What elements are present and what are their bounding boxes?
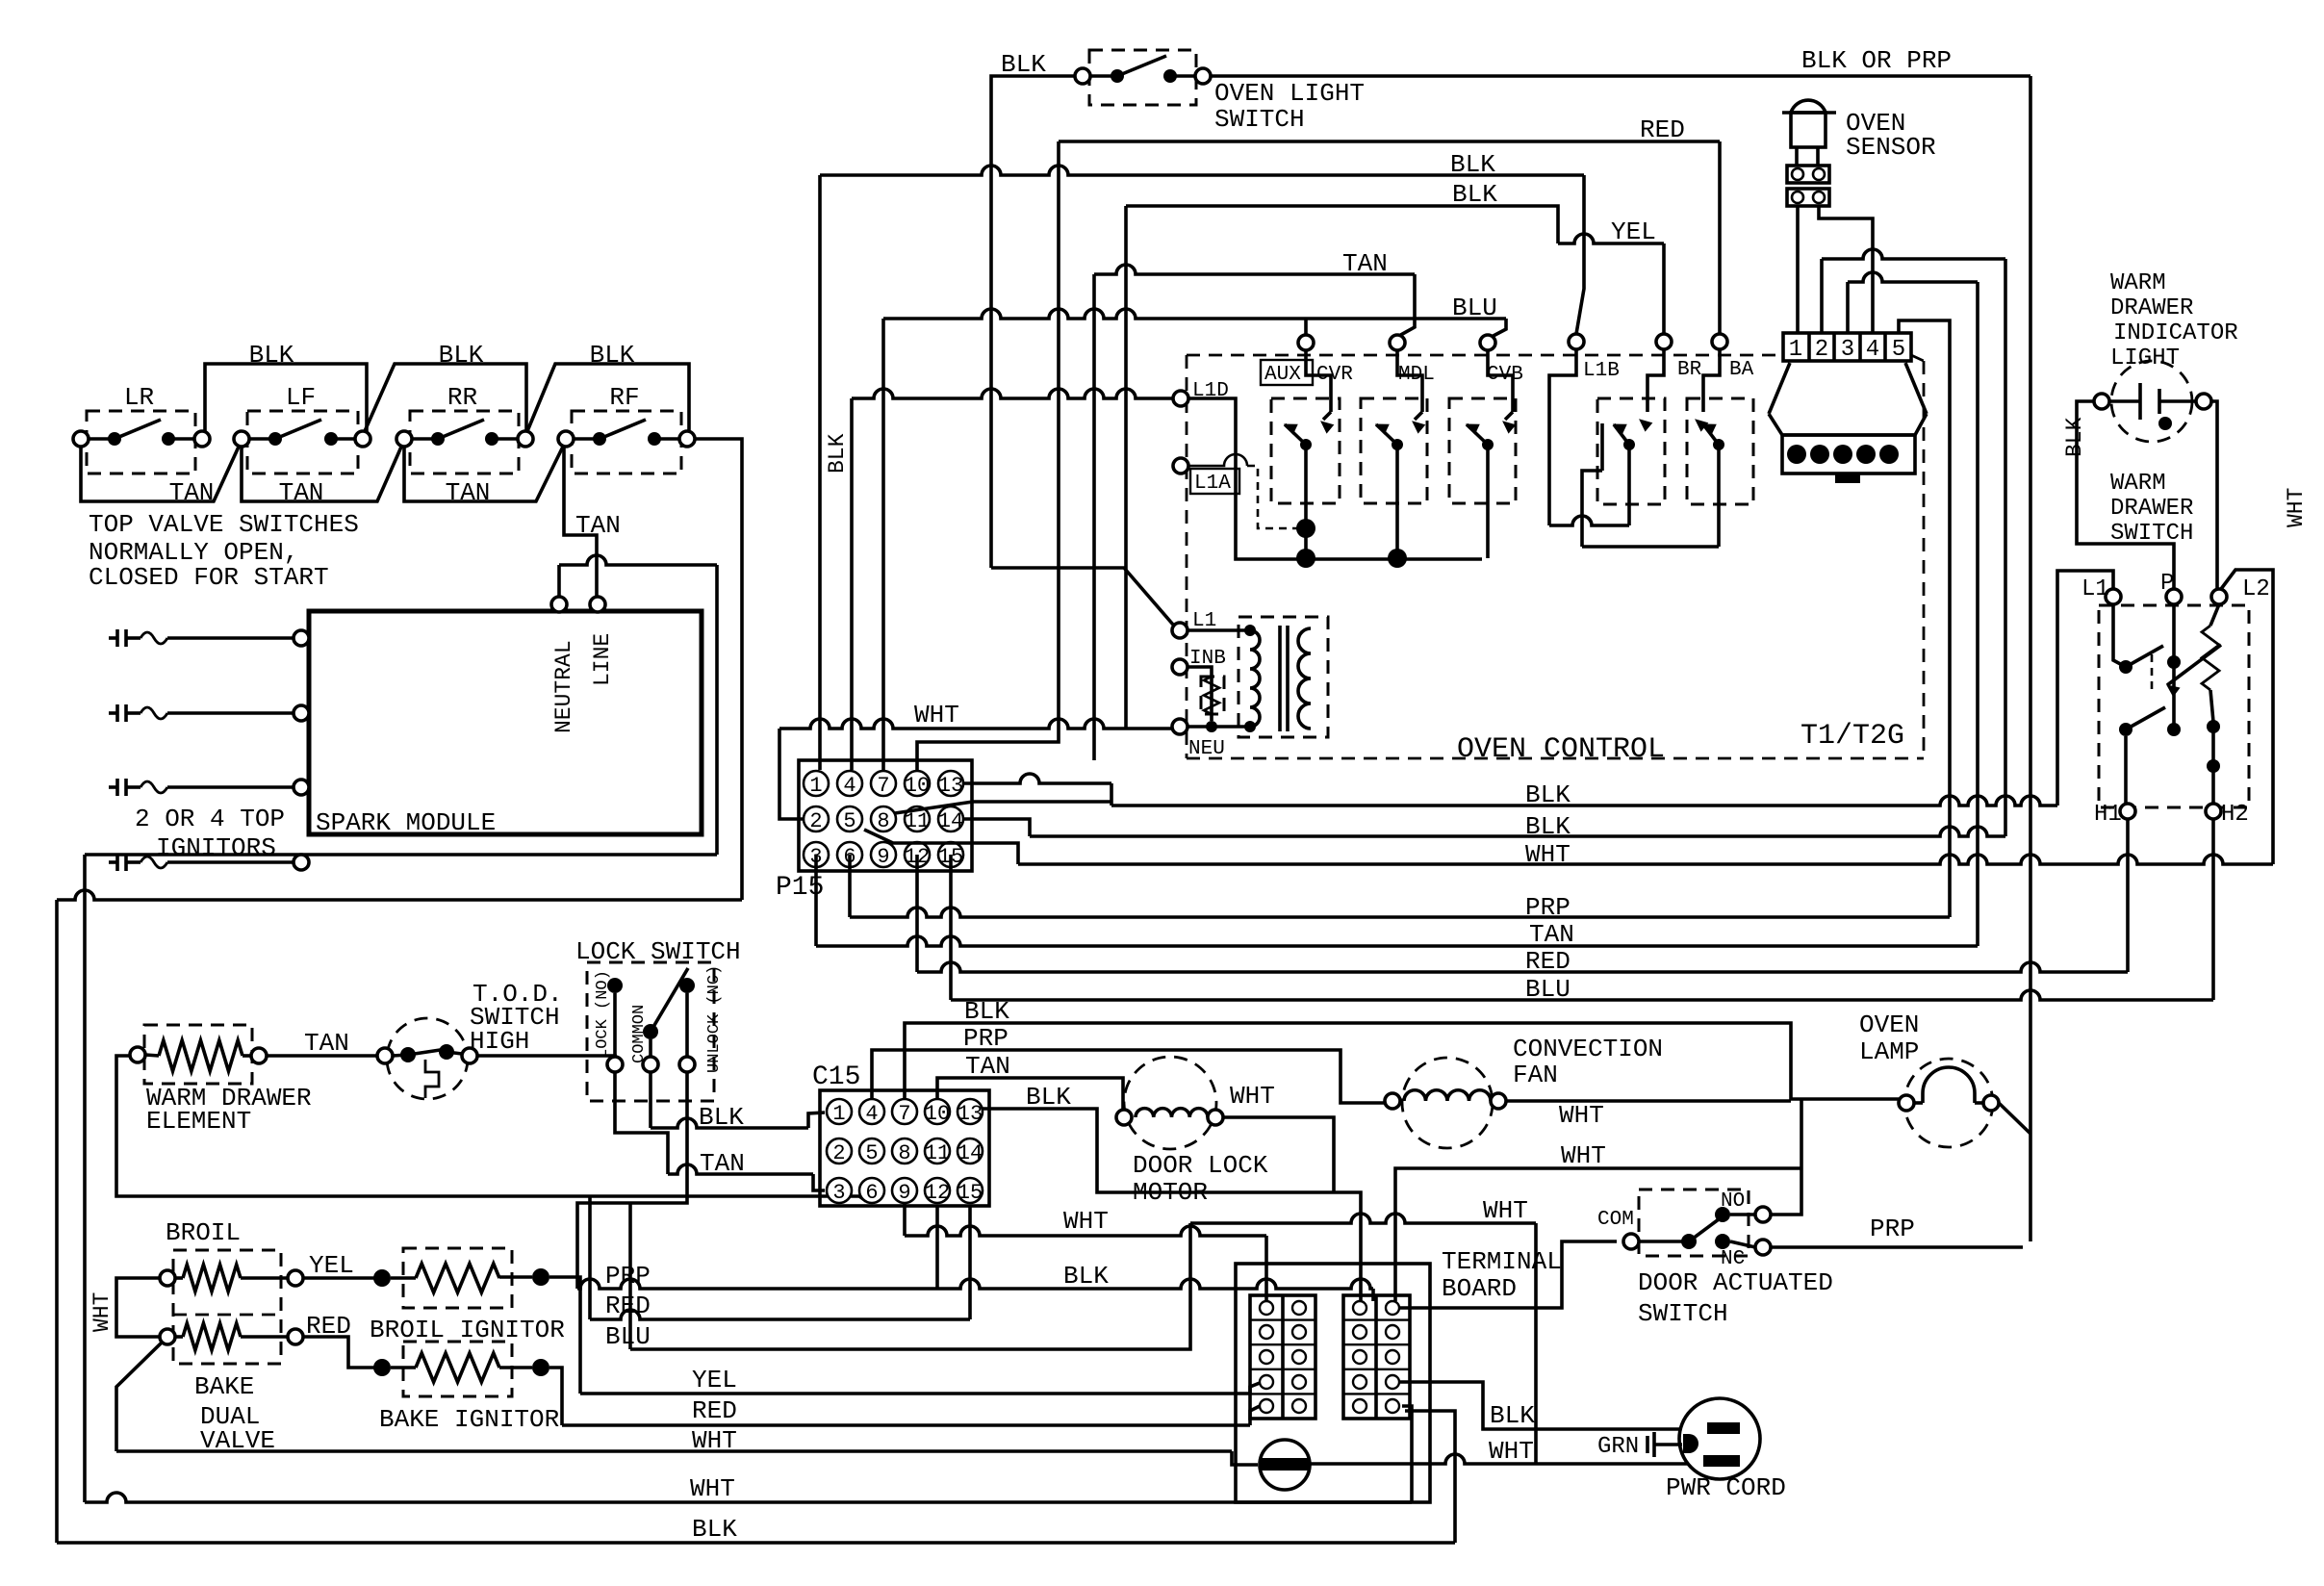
relay box CVB	[1449, 398, 1516, 503]
svg-text:PRP: PRP	[1525, 893, 1571, 922]
convection fan dashed circle	[1402, 1058, 1493, 1148]
oven control dashed box top	[1187, 354, 1783, 357]
svg-text:WHT: WHT	[914, 701, 959, 729]
wire v1100 to P15-10	[917, 141, 1059, 770]
P15 pin 2	[804, 806, 829, 831]
svg-text:WHT: WHT	[1525, 840, 1571, 869]
wire INB jog	[1188, 667, 1212, 721]
wire RED top bus	[1059, 140, 1720, 143]
wire BLU bottom	[630, 1223, 1190, 1349]
L1A terminal	[1173, 458, 1188, 473]
svg-text:OVEN: OVEN	[1859, 1010, 1919, 1039]
H1 H2 terminals	[2120, 804, 2135, 819]
wire lamp right diag	[1999, 1103, 2030, 1134]
svg-text:5: 5	[1892, 337, 1905, 363]
wire v1170	[1124, 206, 1128, 729]
wire C15-4 riser PRP	[872, 1050, 1385, 1103]
warm drawer element dashed box	[144, 1025, 252, 1084]
wire BLK bus1 long	[1111, 796, 2057, 806]
svg-text:RED: RED	[692, 1396, 737, 1425]
wire to L1 diagonal	[991, 568, 1173, 625]
svg-text:RF: RF	[609, 383, 639, 412]
svg-text:H1: H1	[2094, 802, 2122, 828]
svg-text:AUX: AUX	[1264, 364, 1301, 386]
wire TAN link 1	[81, 445, 240, 501]
TB right block circles row2	[1353, 1325, 1366, 1339]
C15 pin 14	[958, 1138, 983, 1164]
wire WHT bus3 long	[1018, 855, 2273, 864]
wire P15-8 diag	[895, 802, 1111, 813]
wire C15-7 riser BLK	[905, 1023, 1899, 1099]
pwr cord circle	[1679, 1398, 1760, 1479]
svg-text:MOTOR: MOTOR	[1133, 1178, 1208, 1207]
svg-text:FAN: FAN	[1513, 1061, 1558, 1089]
junction dot AUX upper	[1296, 519, 1315, 538]
wire indicator left down	[2077, 401, 2174, 589]
svg-text:TAN: TAN	[700, 1149, 745, 1178]
wire BLK bus1 top	[820, 166, 1584, 175]
svg-text:WHT: WHT	[1489, 1437, 1534, 1466]
label AUX boxed	[1261, 360, 1313, 385]
wire WHT line 1214	[1395, 1168, 1801, 1301]
svg-text:TAN: TAN	[1529, 920, 1574, 949]
wire sensor to pin1	[1796, 206, 1800, 333]
top valve switch LF dashed box	[247, 411, 358, 473]
wire RED bottom	[588, 1196, 592, 1319]
svg-text:TAN: TAN	[575, 511, 621, 540]
wire PRP bottom ext	[937, 1279, 1373, 1289]
svg-text:1: 1	[1789, 337, 1802, 363]
C15 pin 3	[827, 1178, 852, 1203]
wire indicator right down	[2211, 401, 2217, 589]
svg-text:BLU: BLU	[1452, 294, 1497, 322]
TB right block circles row5	[1353, 1399, 1366, 1413]
wire NC PRP to lamp	[1771, 1245, 2023, 1249]
wire motor right down	[1223, 1117, 1334, 1192]
C15 pin 11	[925, 1138, 950, 1164]
wire COMMON to BLK	[649, 1072, 652, 1128]
svg-text:L2: L2	[2242, 576, 2270, 602]
wire WHT valve loop	[116, 1278, 160, 1337]
terminal board right block	[1343, 1295, 1410, 1419]
svg-text:PRP: PRP	[963, 1024, 1009, 1053]
C15 pin 12	[925, 1178, 950, 1203]
wire v918 P15-7 feed	[881, 319, 885, 770]
bake ignitor dashed box	[403, 1342, 512, 1396]
relay CVB contact	[1488, 350, 1513, 412]
convection fan coil	[1385, 1093, 1400, 1109]
lock switch dashed box	[587, 962, 714, 1101]
lock switch contacts	[607, 978, 623, 993]
svg-text:RED: RED	[1525, 947, 1571, 976]
wire LOCK chain to TAN line	[615, 1072, 668, 1174]
oven control dashed left edge	[1186, 355, 1188, 758]
wire bake ignitor out RED	[549, 1368, 562, 1425]
P15 pin 4	[837, 771, 862, 796]
wire C15-13 BLK to TB	[983, 1109, 1361, 1301]
L1 terminal	[1172, 623, 1188, 638]
svg-text:LF: LF	[286, 383, 316, 412]
wire BLU left riser	[628, 1203, 632, 1349]
relay top circles	[1298, 335, 1314, 350]
wire bake diagonal down	[116, 1343, 162, 1451]
svg-text:HIGH: HIGH	[470, 1027, 529, 1056]
svg-text:P: P	[2160, 571, 2174, 597]
svg-text:4: 4	[865, 1102, 878, 1126]
wire NO up to lamp feed	[1771, 1099, 1801, 1215]
transformer primary coil	[1250, 630, 1260, 727]
svg-text:NO: NO	[1721, 1190, 1745, 1213]
svg-text:BLK: BLK	[1452, 180, 1497, 209]
wire WHT bottom rail to TB	[1402, 1406, 1412, 1502]
C15 pin 13	[958, 1099, 983, 1124]
svg-text:SENSOR: SENSOR	[1846, 133, 1936, 162]
warm drawer switch dashed box	[2099, 605, 2249, 807]
resistor dashed box small	[1201, 677, 1224, 714]
terminal board left block	[1250, 1295, 1315, 1419]
svg-text:YEL: YEL	[1611, 217, 1656, 246]
warm drawer element resistor	[130, 1047, 145, 1062]
svg-text:L1B: L1B	[1583, 360, 1620, 382]
pwr cord prongs	[1707, 1422, 1740, 1434]
svg-text:WHT: WHT	[89, 1292, 115, 1332]
svg-text:WHT: WHT	[692, 1426, 737, 1455]
bake valve resistor	[160, 1329, 175, 1344]
oven control dashed right part	[1923, 361, 1926, 758]
door actuated switch dashed box	[1639, 1189, 1749, 1256]
P15 pin 10	[905, 771, 930, 796]
svg-text:2: 2	[832, 1141, 845, 1165]
terminal strip 1-5 box	[1783, 333, 1911, 361]
wire NEUTRAL return long	[85, 853, 717, 857]
broil valve resistor	[160, 1270, 175, 1286]
svg-text:BLK: BLK	[439, 341, 484, 370]
broil ignitor resistor	[373, 1269, 391, 1287]
C15 pin 6	[859, 1178, 884, 1203]
wire PRP bottom	[577, 1279, 937, 1289]
svg-text:LR: LR	[124, 383, 154, 412]
svg-text:YEL: YEL	[309, 1251, 354, 1280]
svg-text:BAKE: BAKE	[194, 1372, 254, 1401]
svg-text:SPARK MODULE: SPARK MODULE	[316, 808, 496, 837]
svg-text:9: 9	[877, 845, 889, 869]
svg-text:L1: L1	[2081, 576, 2109, 602]
wire outer rail	[57, 890, 742, 900]
L1 P L2 terminals	[2106, 589, 2121, 604]
svg-text:BLK: BLK	[1490, 1401, 1535, 1430]
wire UNLOCK down to PRP	[577, 1072, 687, 1289]
P15 pin 15	[938, 842, 963, 867]
svg-text:IGNITORS: IGNITORS	[156, 833, 276, 862]
svg-text:PWR CORD: PWR CORD	[1666, 1473, 1786, 1502]
svg-text:BLK: BLK	[1525, 780, 1571, 809]
svg-text:BLK: BLK	[1026, 1083, 1071, 1112]
C15 box	[820, 1090, 989, 1206]
C15 pin 1	[827, 1099, 852, 1124]
svg-text:2: 2	[809, 809, 822, 833]
wire TB to BLK plug	[1399, 1382, 1705, 1429]
svg-text:TAN: TAN	[279, 478, 324, 507]
svg-text:8: 8	[898, 1141, 910, 1165]
wire TOD to LOCK terminal	[477, 1056, 615, 1057]
svg-text:BLU: BLU	[1525, 975, 1571, 1004]
wire TAN link 2	[242, 445, 402, 501]
wire long vertical to oven lamp	[2029, 76, 2032, 1241]
svg-text:OVEN LIGHT: OVEN LIGHT	[1214, 79, 1365, 108]
svg-text:2: 2	[1815, 337, 1828, 363]
svg-text:1: 1	[832, 1102, 845, 1126]
svg-text:WHT: WHT	[2284, 488, 2309, 527]
wire WHT bottom rail	[85, 1493, 1412, 1502]
wire L1D down bus	[1188, 398, 1482, 559]
svg-text:PRP: PRP	[605, 1262, 651, 1291]
svg-text:TAN: TAN	[169, 478, 215, 507]
relay BA contact	[1703, 349, 1720, 412]
svg-text:10: 10	[925, 1102, 950, 1126]
svg-text:LAMP: LAMP	[1859, 1037, 1919, 1066]
wire YEL to BR	[1558, 234, 1664, 243]
C15 pin 2	[827, 1138, 852, 1164]
wire pin2 riser	[1820, 259, 1824, 333]
wire BLU bus top	[883, 309, 1506, 319]
junction dot AUX lower	[1296, 549, 1315, 568]
bake ignitor resistor	[373, 1359, 391, 1376]
svg-text:BLK: BLK	[692, 1515, 737, 1544]
wire YEL to broil ignitor	[303, 1276, 374, 1280]
wire RED drop to BA	[1718, 141, 1722, 334]
oven light switch dashed box	[1089, 50, 1196, 105]
NEU terminal	[1172, 719, 1188, 734]
warm drawer indicator dashed circle	[2111, 361, 2192, 442]
svg-text:LOCK (NO): LOCK (NO)	[594, 970, 612, 1059]
C15 pin 10	[925, 1099, 950, 1124]
fuse symbol	[1260, 1440, 1310, 1490]
wire H1 down to RED	[2126, 819, 2130, 972]
wire BLK into oven light switch	[991, 76, 1075, 568]
wire NEU to transformer	[1188, 725, 1250, 729]
BR fixed bracket	[1600, 423, 1604, 471]
wire C15-10 riser TAN	[937, 1078, 1123, 1110]
wire RED bus	[915, 855, 919, 972]
TB left block circles row4	[1260, 1375, 1273, 1389]
wire BLK bus2 top	[1126, 206, 1558, 243]
svg-text:BROIL: BROIL	[166, 1218, 241, 1247]
C15 pin 9	[892, 1178, 917, 1203]
door lock motor dashed circle	[1124, 1057, 1216, 1149]
oven lamp symbol	[1899, 1095, 1914, 1111]
svg-text:1: 1	[809, 774, 822, 798]
svg-text:14: 14	[958, 1141, 983, 1165]
relay box MDL	[1361, 398, 1427, 503]
wire L1B to BR arm	[1549, 349, 1576, 525]
wire WHT line 1271	[1190, 1214, 1536, 1223]
svg-text:LINE: LINE	[590, 633, 615, 686]
svg-text:NEU: NEU	[1188, 738, 1225, 760]
svg-text:BLK OR PRP: BLK OR PRP	[1801, 46, 1952, 75]
svg-text:13: 13	[958, 1102, 983, 1126]
svg-text:11: 11	[925, 1141, 950, 1165]
C15 pin 5	[859, 1138, 884, 1164]
wire BLK1 drop to L1B	[1576, 175, 1584, 334]
wire H2 down to BLU	[2211, 819, 2215, 1000]
svg-text:TERMINAL: TERMINAL	[1442, 1247, 1562, 1276]
wire v885 P15-4 feed	[850, 398, 854, 770]
P15 box	[799, 760, 972, 871]
wire RED to bake ignitor	[303, 1337, 374, 1368]
wire P15-14 to BLK bus2	[963, 819, 1030, 836]
P15 pin 7	[871, 771, 896, 796]
TB left block circles row1	[1260, 1301, 1273, 1315]
ignitor symbol 2	[109, 711, 117, 715]
svg-text:COMMON: COMMON	[630, 1005, 649, 1063]
svg-text:BROIL IGNITOR: BROIL IGNITOR	[370, 1316, 565, 1344]
svg-text:8: 8	[877, 809, 889, 833]
svg-text:WARM: WARM	[2110, 471, 2166, 497]
wire TAN link 3	[404, 445, 564, 501]
svg-text:BAKE IGNITOR: BAKE IGNITOR	[379, 1405, 559, 1434]
svg-text:YEL: YEL	[692, 1366, 737, 1394]
relay box BA	[1687, 398, 1753, 504]
wire BLU bus	[949, 855, 953, 1000]
broil bake dual valve dashed box	[173, 1250, 281, 1364]
wire WHT bottom from valve	[116, 1449, 1232, 1453]
relay BR contact	[1647, 349, 1664, 412]
svg-text:TAN: TAN	[304, 1029, 349, 1058]
wire v851 P15-1 feed	[818, 175, 822, 770]
P15 pin 6	[837, 842, 862, 867]
svg-text:WHT: WHT	[1230, 1082, 1275, 1111]
oven sensor connector block 1	[1787, 166, 1829, 183]
svg-text:6: 6	[865, 1181, 878, 1205]
svg-text:WARM: WARM	[2110, 270, 2166, 296]
oven sensor bulb	[1791, 100, 1826, 113]
switch LR terminals	[73, 431, 89, 447]
svg-text:BR: BR	[1677, 359, 1702, 381]
svg-text:4: 4	[1866, 337, 1879, 363]
relay box BR	[1597, 398, 1665, 504]
P15 pin 1	[804, 771, 829, 796]
svg-text:RR: RR	[447, 383, 477, 412]
TB left block circles row2	[1260, 1325, 1273, 1339]
top valve switch LR dashed box	[87, 411, 195, 473]
svg-text:BLU: BLU	[605, 1322, 651, 1351]
svg-text:13: 13	[938, 774, 963, 798]
svg-text:INDICATOR: INDICATOR	[2113, 320, 2238, 346]
ignitor symbol 4	[109, 860, 117, 864]
ignitor symbol 1	[109, 636, 117, 640]
wire P15-5 diag to WHT bus3	[864, 830, 1018, 864]
svg-text:DRAWER: DRAWER	[2110, 295, 2193, 321]
transformer core	[1278, 626, 1282, 731]
svg-text:3: 3	[832, 1181, 845, 1205]
svg-text:COM: COM	[1597, 1209, 1634, 1231]
svg-text:BLK: BLK	[2062, 417, 2087, 457]
svg-text:15: 15	[958, 1181, 983, 1205]
wire v1137	[1092, 274, 1096, 760]
oven light switch contacts	[1075, 68, 1090, 84]
C15 pin 4	[859, 1099, 884, 1124]
transformer dashed box	[1239, 617, 1328, 737]
P15 pin 12	[905, 842, 930, 867]
svg-text:5: 5	[843, 809, 856, 833]
C15 pin 7	[892, 1099, 917, 1124]
wire C15-9 WHT low	[903, 1203, 907, 1236]
TB left block circles row5	[1260, 1399, 1273, 1413]
indicator light symbol	[2094, 394, 2109, 409]
ignitor symbol 3	[109, 785, 117, 789]
switch LF terminals	[234, 431, 249, 447]
NEUTRAL LINE terminals	[551, 597, 567, 612]
wire TAN line to C15-3	[668, 1164, 813, 1174]
svg-text:BLK: BLK	[825, 433, 850, 473]
wire BLK bottom rail	[57, 1541, 1455, 1545]
P15 pin 5	[837, 806, 862, 831]
svg-text:SWITCH: SWITCH	[2110, 521, 2193, 547]
P15 pin 8	[871, 806, 896, 831]
svg-text:TAN: TAN	[446, 478, 491, 507]
svg-text:RED: RED	[1640, 115, 1685, 144]
wire warm element left down	[116, 1056, 866, 1201]
wire BLK OR PRP long top	[1211, 74, 2030, 78]
wire broil ignitor out YEL	[549, 1277, 580, 1394]
svg-text:SWITCH: SWITCH	[1214, 105, 1305, 134]
C15 pin 15	[958, 1178, 983, 1203]
TB right block circles row1	[1353, 1301, 1366, 1315]
wire sensor to pin4	[1819, 206, 1873, 333]
svg-text:5: 5	[865, 1141, 878, 1165]
wire RF right to outer rail	[695, 439, 742, 900]
svg-text:14: 14	[938, 809, 963, 833]
plug trapezoid below strip	[1769, 363, 1790, 414]
svg-text:WHT: WHT	[1483, 1196, 1528, 1225]
TB right block circles row4	[1353, 1375, 1366, 1389]
svg-text:TAN: TAN	[1342, 249, 1388, 278]
svg-text:NEUTRAL: NEUTRAL	[551, 640, 576, 733]
door lock motor coil	[1116, 1110, 1132, 1125]
TB right block circles row3	[1353, 1350, 1366, 1364]
svg-text:SWITCH: SWITCH	[1638, 1299, 1728, 1328]
svg-text:DOOR ACTUATED: DOOR ACTUATED	[1638, 1268, 1833, 1297]
svg-text:7: 7	[898, 1102, 910, 1126]
svg-text:CONVECTION: CONVECTION	[1513, 1035, 1663, 1063]
wire L1A dashed link	[1188, 454, 1247, 466]
svg-text:GRN: GRN	[1597, 1434, 1639, 1460]
P15 pin 14	[938, 806, 963, 831]
svg-text:10: 10	[905, 774, 930, 798]
P15 pin 9	[871, 842, 896, 867]
svg-text:TAN: TAN	[965, 1052, 1010, 1081]
svg-text:BLK: BLK	[699, 1103, 744, 1132]
svg-text:TOP VALVE SWITCHES: TOP VALVE SWITCHES	[89, 510, 359, 539]
label L1A boxed	[1190, 469, 1239, 494]
svg-text:NC: NC	[1721, 1248, 1745, 1270]
wire PRP bus	[848, 855, 852, 917]
L1D terminal	[1173, 391, 1188, 406]
P15 pin 13	[938, 771, 963, 796]
svg-text:UNLOCK (NC): UNLOCK (NC)	[705, 965, 724, 1073]
svg-text:BA: BA	[1729, 359, 1754, 381]
top valve switch RF dashed box	[572, 411, 681, 473]
P15 pin 11	[905, 806, 930, 831]
wire L1 to transformer	[1188, 628, 1250, 632]
wire TAN bus low	[814, 855, 818, 946]
junction dot MDL	[1388, 549, 1407, 568]
svg-text:WHT: WHT	[690, 1474, 735, 1503]
svg-text:ELEMENT: ELEMENT	[146, 1107, 251, 1136]
P15 pin 3	[804, 842, 829, 867]
wire pin3 riser	[1846, 282, 1850, 333]
svg-text:BOARD: BOARD	[1442, 1274, 1517, 1303]
